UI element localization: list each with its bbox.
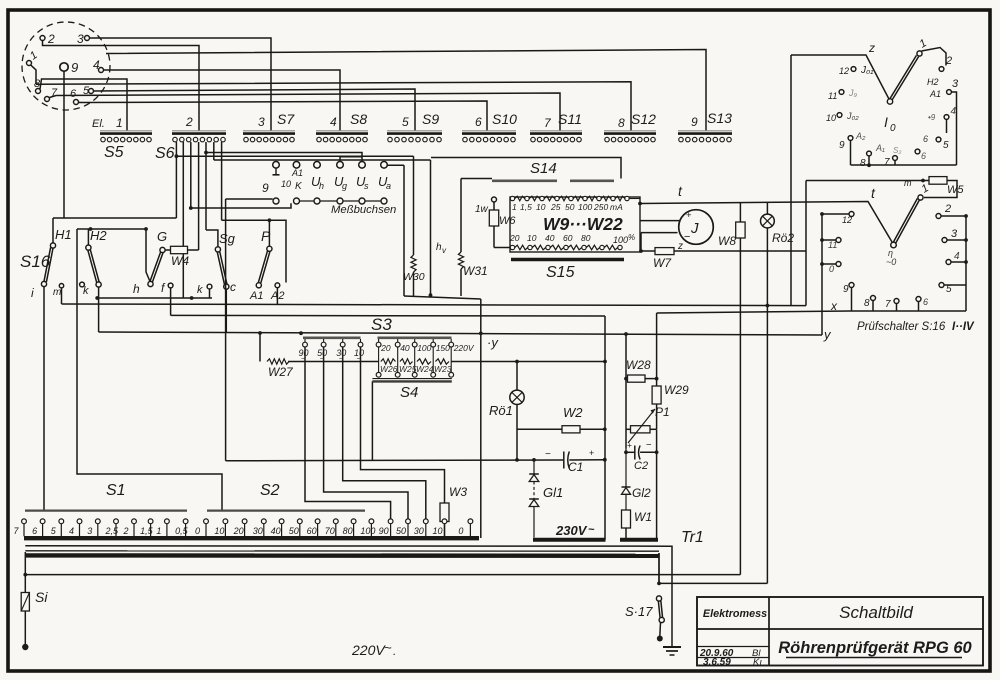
svg-text:1: 1 [116,116,123,130]
socket pin 3 [85,36,90,41]
switch bank 5 S9 [387,130,442,132]
svg-text:7: 7 [544,116,552,130]
switch bank 7 S11 [530,130,582,132]
svg-text:f: f [161,281,166,295]
I0 pin 7 [893,156,898,161]
svg-text:W3: W3 [449,485,467,499]
switch bank 6 S10 [462,130,516,132]
contact f [168,283,173,288]
svg-text:z: z [868,41,875,55]
svg-text:1w: 1w [475,204,489,215]
I0 pin4 stub [946,119,948,133]
junction S6 stem3/wire y208 [189,206,193,210]
svg-text:−: − [684,231,690,243]
svg-text:J₀₁: J₀₁ [860,65,873,76]
svg-text:W28: W28 [626,358,651,372]
I0 pin8 stem [868,156,870,167]
transformer tap contact 10 [442,519,447,524]
svg-text:P1: P1 [655,405,670,419]
S2 contact 80 [351,519,356,524]
S2 top bar [207,510,365,512]
svg-text:S10: S10 [492,111,517,127]
svg-text:g: g [342,181,347,191]
bus right end down to S17 [658,553,660,583]
socket pin 7 [45,97,50,102]
switch G [160,247,165,252]
junction W7 node [639,249,643,253]
merge wire y296 [404,296,481,299]
svg-text:S8: S8 [350,111,367,127]
svg-text:1: 1 [156,526,161,536]
svg-text:3: 3 [77,32,84,46]
svg-text:3: 3 [87,526,92,536]
svg-text:i: i [31,286,34,300]
svg-text:10: 10 [214,526,224,536]
S1 contact 5 [59,519,64,524]
svg-text:m: m [904,178,912,188]
svg-text:c: c [230,280,236,294]
contact A2 [275,283,280,288]
switch bank 9 S13 [678,130,732,132]
vertical x414 with resistor W30 [413,156,415,255]
svg-text:2: 2 [123,526,129,536]
svg-text:W1: W1 [634,510,652,524]
I0 pin 3 [947,90,952,95]
rail y315 f to transformer tap vertical [171,314,605,317]
svg-text:Kı: Kı [753,657,762,668]
svg-text:m: m [53,287,61,298]
wire rail pin1 to bank S12 drop [36,82,631,131]
svg-text:~: ~ [588,524,595,536]
H2 top bar [77,228,146,230]
S1 contact 0,5 [183,519,188,524]
Pruefschalter lever [895,200,920,246]
svg-text:h: h [133,282,140,296]
svg-text:10: 10 [527,233,537,243]
S6 stem 3 down to jack wire y208 [190,142,192,208]
svg-text:30: 30 [253,526,263,536]
I0 pin 12 [851,67,856,72]
svg-text:Meßbuchsen: Meßbuchsen [331,204,396,216]
svg-text:A₁: A₁ [875,143,885,153]
wire y220 to A2 bracket [222,220,286,282]
svg-text:12: 12 [842,215,852,225]
svg-text:W7: W7 [653,256,672,270]
socket pin 8 [36,89,41,94]
switch bank 8 S12 [604,130,656,132]
svg-text:9: 9 [71,60,78,75]
I0 pin 6 [915,149,920,154]
socket pin 2 [40,36,45,41]
wire W8 down to bottom rail [739,238,741,575]
svg-text:100: 100 [578,202,592,212]
transformer Tr1 primary thick bus [25,550,659,552]
junction Ro2/rail y305 [766,304,770,308]
junction Ro1/C1 wire [515,458,519,462]
PS pin 7 [894,299,899,304]
S4 tap 20 terminal [378,339,380,342]
junction fuse [23,573,27,577]
x rail wire to PS bottom [657,311,851,313]
wire P top stem [268,220,270,246]
svg-text:I: I [884,114,888,130]
svg-text:t: t [678,183,683,199]
svg-text:9: 9 [839,140,845,151]
svg-text:100: 100 [417,343,431,353]
PS pin 10 [836,262,841,267]
S4 terminal bar left group [303,336,361,339]
svg-text:4: 4 [69,526,74,536]
svg-text:t: t [871,185,876,201]
svg-text:0: 0 [829,264,834,274]
PS pin 11 [836,238,841,243]
S4 bracket left vertical [371,381,373,460]
switch S14 wire [431,158,621,179]
S1 contact 7 [22,519,27,524]
junction x481 rail y332 [479,332,483,336]
junction P stem [268,218,272,222]
S14 contact bar right [570,180,614,183]
svg-text:a: a [386,181,391,191]
svg-text:7: 7 [884,157,890,168]
svg-text:+: + [589,448,594,458]
vertical from Ua x404 [403,165,405,296]
resistor W28 [628,375,646,382]
svg-text:1: 1 [918,37,929,50]
svg-text:A₂: A₂ [855,131,866,141]
svg-text:S·17: S·17 [625,604,653,619]
PS pin 4 [946,260,951,265]
PS pin 8 [871,296,876,301]
column 90V to S2 tap [305,347,391,519]
svg-text:S3: S3 [371,315,392,334]
junction rail y298 right [190,296,194,300]
svg-text:+: + [627,440,632,450]
S2 contact 50 [297,519,302,524]
wire Ro2 down to S17 wire [766,228,768,584]
svg-text:6: 6 [921,151,926,161]
resistor W6 [493,202,495,210]
S4 tap 150 terminal [432,339,434,342]
PS pin 12 [849,212,854,217]
socket pin 9 (large) [60,63,68,71]
svg-text:%: % [628,233,635,242]
svg-text:C1: C1 [568,460,583,474]
wire Ro1 bottom [516,405,518,460]
S1 contact 1,5 [148,519,153,524]
svg-text:80: 80 [581,233,591,243]
svg-text:12: 12 [839,66,849,76]
svg-text:80: 80 [343,526,353,536]
vertical x481 down to S2 bar [480,299,482,538]
socket pin 6 [74,100,79,105]
svg-text:9: 9 [843,284,849,295]
wire H2 top stem [87,229,89,245]
vertical x430 [430,160,432,296]
transformer tap contact 30 [423,519,428,524]
svg-text:W6: W6 [499,215,516,227]
svg-text:•9: •9 [928,113,936,122]
I0 pin 9 [848,136,853,141]
svg-text:4: 4 [954,251,960,262]
svg-text:40: 40 [271,526,281,536]
svg-text:W31: W31 [463,264,488,278]
svg-text:·y: ·y [487,335,499,350]
svg-text:K: K [295,181,303,192]
transformer tap contact 0 [468,519,473,524]
Tr1 column bottom bar [620,538,658,542]
junction S6 stem5/wire y152 [204,151,208,155]
wire H2 bar right down to contact h [146,229,150,281]
I0 pin 8 [867,151,872,156]
svg-text:H1: H1 [55,227,72,242]
S2 contact 20 [242,519,247,524]
S1 contact 2,5 [114,519,119,524]
socket pin 4 [99,68,104,73]
svg-text:6: 6 [923,134,928,144]
resistor W29 [652,386,661,404]
svg-text:20: 20 [233,526,244,536]
PS pin 2 [936,214,941,219]
S4 terminal bar right group [378,336,452,339]
svg-text:8: 8 [860,158,866,169]
junction chain/vertical 605 [603,360,607,364]
junction bar/contact h drop [144,227,148,231]
S4 tap 10V terminal [360,339,362,342]
svg-text:8: 8 [864,298,870,309]
svg-text:W25: W25 [399,364,417,374]
I0 pin 2 [939,67,944,72]
switch bank 2 (S6) [172,130,226,132]
Pruefschalter left feed vertical x806 [805,181,807,306]
S2 contact 100 [369,519,374,524]
svg-text:S6: S6 [155,145,175,162]
svg-text:W5: W5 [947,184,964,196]
switch Sg [215,247,220,252]
svg-text:250: 250 [593,202,608,212]
svg-text:S₂: S₂ [893,146,901,155]
left column x626 from heater rail [625,334,627,449]
S2 contact 0 [204,519,209,524]
svg-text:6: 6 [475,115,482,129]
svg-text:4: 4 [330,115,337,129]
junction S15 right top [638,202,642,206]
I0 pin 4 [944,115,949,120]
PS left bus [821,214,823,335]
capacitor C1 [563,452,565,469]
svg-text:G: G [157,229,167,244]
svg-text:2,5: 2,5 [105,526,120,536]
wire rail to bank S13 drop [106,50,706,132]
transformer tap vertical x605 [604,316,606,540]
svg-text:7: 7 [885,299,891,310]
S1 top bar [25,510,187,512]
S2 contact 70 [333,519,338,524]
svg-text:W8: W8 [718,234,736,248]
earth ground symbol [663,646,681,648]
S3 left vertical [225,199,227,461]
svg-text:Tr1: Tr1 [681,529,704,546]
svg-text:S4: S4 [400,384,418,401]
S2 contact 60 [315,519,320,524]
S4 tap 50V terminal [323,339,325,342]
svg-text:mA: mA [610,202,623,212]
svg-text:A1: A1 [291,168,303,178]
measuring jacks bottom row [297,200,385,202]
svg-text:S2: S2 [260,482,280,499]
I0 pin 11 [839,90,844,95]
svg-text:8: 8 [618,116,625,130]
bottom rail wire y574 [24,552,26,575]
rotary switch I0 lever [891,57,919,102]
wire P1 down / C2 node [656,429,658,540]
C1 wire left segment [226,459,563,462]
S6 stem 4 down to W4 [198,142,200,250]
S2 contact 30 [261,519,266,524]
svg-text:5: 5 [402,115,409,129]
resistors W23-W26 chain [381,359,396,364]
junction Ro1 top [515,360,519,364]
svg-text:El.: El. [92,118,105,130]
wire C2 down to Gl2 [625,452,627,486]
svg-text:S12: S12 [631,111,656,127]
PS pin 9 [849,283,854,288]
socket pin 1 [27,61,32,66]
PS pin 5 [939,283,944,288]
meter J [679,210,714,245]
PS pin 3 [942,238,947,243]
svg-text:10: 10 [826,113,836,123]
S6 stem 6 down to wire y160 [213,142,215,160]
svg-text:H2: H2 [927,77,939,87]
svg-text:Gl1: Gl1 [543,485,563,500]
W27 feed stub [259,333,261,362]
svg-text:Röhrenprüfgerät RPG 60: Röhrenprüfgerät RPG 60 [778,639,972,657]
svg-text:A1: A1 [249,290,263,302]
I0 wire pin3 to bottom [951,92,956,165]
svg-text:0,5: 0,5 [175,526,189,536]
S4 tap 220V terminal [450,339,452,342]
svg-text:W26: W26 [380,364,398,374]
svg-text:S5: S5 [104,144,124,161]
svg-text:1: 1 [512,202,517,212]
svg-text:Sg: Sg [219,231,236,246]
resistor W27 [267,359,289,364]
wire pin5 to bank S9 drop [94,89,416,131]
t wire from S15 to Pruefschalter lever [640,202,894,245]
rectifier Gl1 [532,458,536,462]
wire pin4 to bank S8 drop [104,70,341,131]
junction x430 merge [429,293,433,297]
tube socket outline (dashed circle) [22,22,110,110]
rotary switch I0 outline [791,55,890,101]
S6 stem 1 down to node wire y218 [175,142,177,218]
svg-text:9: 9 [262,181,269,195]
wire jack K bottom from stem3 [191,203,291,208]
S15 bottom bar [511,258,624,261]
svg-text:+: + [686,210,692,221]
S15 resistor box W9-W22 [510,197,640,252]
I0 bottom wire [851,164,957,166]
svg-text:5: 5 [943,140,949,151]
svg-text:3: 3 [952,78,959,90]
svg-text:40: 40 [545,233,555,243]
S1 contact 2 [132,519,137,524]
junction W28 left [624,377,628,381]
svg-text:y: y [823,327,832,342]
svg-text:I··IV: I··IV [952,321,975,333]
S1 contact 1 [165,519,170,524]
svg-text:S1: S1 [106,482,126,499]
indicator lamp Ro2 [766,203,768,215]
wire y156 to vertical x414 [176,155,413,157]
svg-text:s: s [364,181,369,191]
resistor W5 [929,177,947,185]
thin bus wire to earth [25,546,672,647]
switch bank 4 S8 [316,130,368,132]
svg-text:S11: S11 [558,111,582,127]
wire y152 to Ug/Us bracket [206,153,362,162]
svg-text:220V: 220V [453,343,475,353]
svg-text:100: 100 [360,526,375,536]
wire pin9 vertical down to node line [63,71,65,218]
switch H1 [50,243,55,248]
svg-text:70: 70 [325,526,335,536]
svg-text:5: 5 [51,526,57,536]
switch S17 [656,596,661,601]
svg-text:h: h [319,181,324,191]
contact k2 [207,284,212,289]
svg-text:Schaltbild: Schaltbild [839,603,913,622]
svg-text:2: 2 [47,32,55,46]
PS pin 6 [916,297,921,302]
S4 tap 40 terminal [397,339,399,342]
svg-text:1,5: 1,5 [520,202,532,212]
switch H2 [86,245,91,250]
capacitor C2 [624,450,628,454]
resistor W2 [562,426,580,433]
S15 bottom chain circles and resistors (percent taps) [510,245,514,249]
svg-text:S15: S15 [546,264,575,281]
230V bottom bar [533,538,606,542]
wire pin3 to bank S7 drop [90,38,272,131]
S4 tap 100 terminal [414,339,416,342]
resistor W6 terminal [492,197,497,202]
S1/S2 bottom bar [24,536,479,540]
PS pin 1 [918,195,923,200]
svg-text:6: 6 [32,526,37,536]
PS bottom wire [851,310,967,312]
wire pin6 to bank S10 drop [79,101,488,131]
S6 stem 2 down to rail y298 [182,142,184,298]
S1 contact 3 [95,519,100,524]
svg-text:10: 10 [536,202,546,212]
junction S6 stem1/wire y156 [175,154,179,158]
svg-text:50: 50 [289,526,299,536]
wire H1 top up [52,218,54,243]
rectifier Gl2 [622,486,631,488]
S14 contact bar left [492,180,557,183]
wire H2 bar left down to S2 feed [77,229,222,510]
I0 pin9 stem [850,140,852,165]
svg-text:Elektromess: Elektromess [703,608,767,620]
svg-text:2: 2 [945,55,952,67]
lamp Ro1 [516,362,518,391]
S6 stem 7 down to wire y220 [221,142,223,220]
junction C1/vertical 605 [603,458,607,462]
svg-text:W2: W2 [563,405,583,420]
I0 pin 10 [837,113,842,118]
